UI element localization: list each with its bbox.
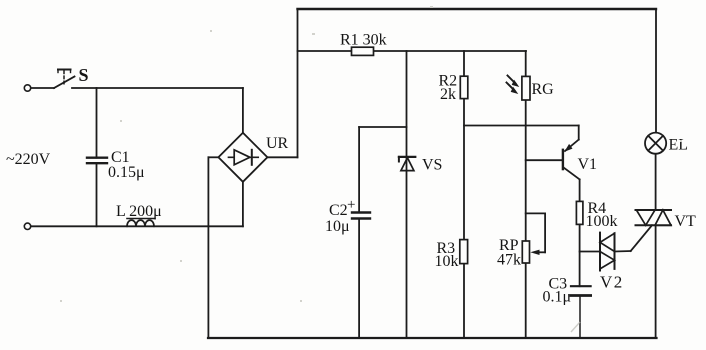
svg-text:10k: 10k	[435, 253, 459, 270]
svg-text:+: +	[347, 197, 355, 213]
svg-text:0.15μ: 0.15μ	[108, 164, 145, 181]
svg-text:47k: 47k	[497, 252, 521, 269]
svg-text:RG: RG	[532, 81, 555, 98]
svg-text:V2: V2	[600, 273, 624, 292]
svg-text:L 200μ: L 200μ	[116, 203, 162, 220]
svg-text:100k: 100k	[586, 213, 618, 230]
svg-text:~220V: ~220V	[6, 151, 51, 168]
svg-text:R1 30k: R1 30k	[340, 32, 387, 49]
svg-text:VS: VS	[422, 157, 442, 174]
svg-text:10μ: 10μ	[325, 218, 350, 235]
svg-text:C2: C2	[329, 202, 348, 219]
svg-text:S: S	[79, 65, 89, 85]
svg-text:V1: V1	[578, 156, 598, 173]
svg-text:EL: EL	[669, 137, 689, 154]
svg-text:2k: 2k	[440, 86, 456, 103]
svg-text:VT: VT	[675, 213, 697, 230]
svg-text:0.1μ: 0.1μ	[543, 289, 572, 306]
svg-text:UR: UR	[266, 135, 289, 152]
